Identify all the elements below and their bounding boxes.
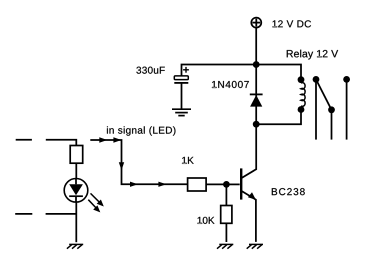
12V DC supply terminal — [251, 18, 261, 28]
wire: node C to R2 — [225, 184, 227, 205]
wire: R1 to node C — [206, 183, 226, 185]
ground (earth, below capacitor) — [172, 109, 191, 115]
node B (collector junction) — [253, 121, 260, 128]
diode D1 1N4007 (flyback) — [250, 94, 263, 106]
label 1N4007 — [212, 81, 249, 88]
wire: signal path with arrows — [90, 137, 187, 187]
transistor Q1 BC238 — [241, 124, 256, 242]
ground (chassis, below emitter) — [247, 244, 263, 248]
ground (chassis, below LED) — [67, 244, 83, 248]
resistor R1 1K (base) — [188, 178, 207, 191]
resistor R2 10K — [221, 206, 232, 224]
relay contact blade (diagonal) — [316, 79, 332, 109]
wire: capacitor to ground — [181, 83, 183, 109]
label 12 V DC — [273, 20, 311, 27]
capacitor C1 330uF (polarized) — [174, 67, 189, 83]
relay contact NC terminal — [343, 76, 350, 140]
label in signal (LED) — [107, 126, 175, 135]
resistor R3 (input, unlabeled) — [70, 146, 83, 164]
relay contact NO terminal — [328, 106, 335, 139]
node A (supply rail junction) — [253, 61, 260, 68]
relay contact pole — [313, 76, 320, 140]
wire: R3 to LED — [75, 163, 77, 179]
wire: node A to relay coil top — [256, 65, 301, 81]
wire: input top (dashed) — [16, 140, 77, 146]
label 10K — [198, 217, 215, 224]
LED D2 — [64, 179, 88, 203]
wire: node A to capacitor — [182, 65, 257, 77]
label 1K — [182, 157, 194, 164]
relay coil K1 — [298, 76, 306, 113]
wire: supply to node A — [255, 28, 257, 65]
wire: input bottom (dashed) — [15, 213, 76, 215]
label BC238 — [272, 188, 305, 195]
label Relay 12 V — [287, 50, 338, 60]
wire: diode branch (node A to node B) — [255, 65, 257, 125]
wire: coil bottom to node B — [256, 110, 301, 125]
label 330uF — [136, 67, 164, 74]
ground (chassis, below R2) — [217, 244, 233, 248]
wire: LED cathode down to ground — [75, 202, 77, 242]
node C (base junction) — [223, 181, 230, 188]
wire: R2 to ground — [225, 223, 227, 242]
LED light arrows — [88, 193, 104, 212]
wire: node C to base — [226, 183, 239, 185]
